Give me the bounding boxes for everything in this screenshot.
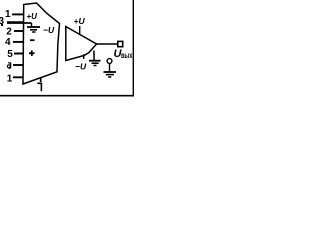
pin 5 — [7, 49, 23, 60]
pin 7 (bottom) — [37, 78, 42, 92]
pin 1 — [5, 9, 24, 20]
pin 8 — [7, 63, 23, 69]
wire pin3 to internal ground — [24, 22, 32, 24]
ground (output common) — [104, 64, 117, 78]
op-amp -U supply lead — [75, 54, 87, 71]
non-inverting input mark — [29, 50, 35, 56]
inverting input mark — [30, 39, 35, 41]
svg-text:1: 1 — [5, 9, 11, 20]
terminal Uout (square) — [118, 41, 123, 46]
svg-text:5: 5 — [7, 49, 13, 60]
pin 2 — [6, 26, 23, 37]
svg-text:−U: −U — [43, 25, 55, 35]
pin 3 — [0, 16, 24, 27]
wire (op-amp output) — [97, 43, 118, 45]
DAC block U1 — [23, 3, 60, 84]
op-amp A1 — [66, 27, 97, 61]
terminal common (circle) — [107, 59, 112, 64]
svg-text:+U: +U — [74, 16, 86, 26]
svg-text:вых: вых — [121, 51, 133, 60]
svg-text:4: 4 — [5, 37, 11, 48]
ground (op-amp) — [89, 51, 101, 66]
pin 1 (lower) — [7, 73, 24, 84]
pin 4 — [5, 37, 24, 48]
ground (inside block) — [27, 23, 40, 32]
svg-text:1: 1 — [7, 73, 13, 84]
op-amp +U supply lead — [74, 16, 86, 35]
svg-text:−U: −U — [75, 62, 87, 72]
svg-text:+U: +U — [27, 12, 38, 21]
svg-text:2: 2 — [6, 26, 12, 37]
label Uvych — [114, 48, 133, 60]
